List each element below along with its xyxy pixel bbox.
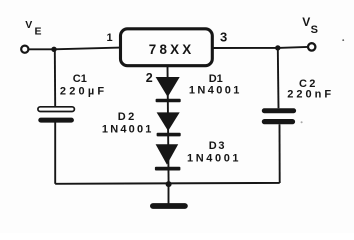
svg-text:D3: D3 [209,140,226,152]
svg-text:3: 3 [220,29,227,44]
svg-text:2: 2 [146,71,153,85]
svg-text:220nF: 220nF [287,89,334,101]
svg-text:220µF: 220µF [60,85,107,97]
svg-text:D2: D2 [118,111,137,123]
svg-text:S: S [311,24,318,36]
svg-text:1: 1 [107,32,113,44]
svg-text:78XX: 78XX [149,42,195,57]
svg-text:1N4001: 1N4001 [102,124,154,136]
svg-text:V: V [302,15,310,29]
svg-text:D1: D1 [209,73,223,85]
svg-text:V: V [25,19,32,31]
svg-text:1N4001: 1N4001 [189,85,242,97]
svg-text:E: E [35,26,42,38]
svg-text:1N4001: 1N4001 [187,153,241,165]
svg-text:C1: C1 [73,73,87,85]
